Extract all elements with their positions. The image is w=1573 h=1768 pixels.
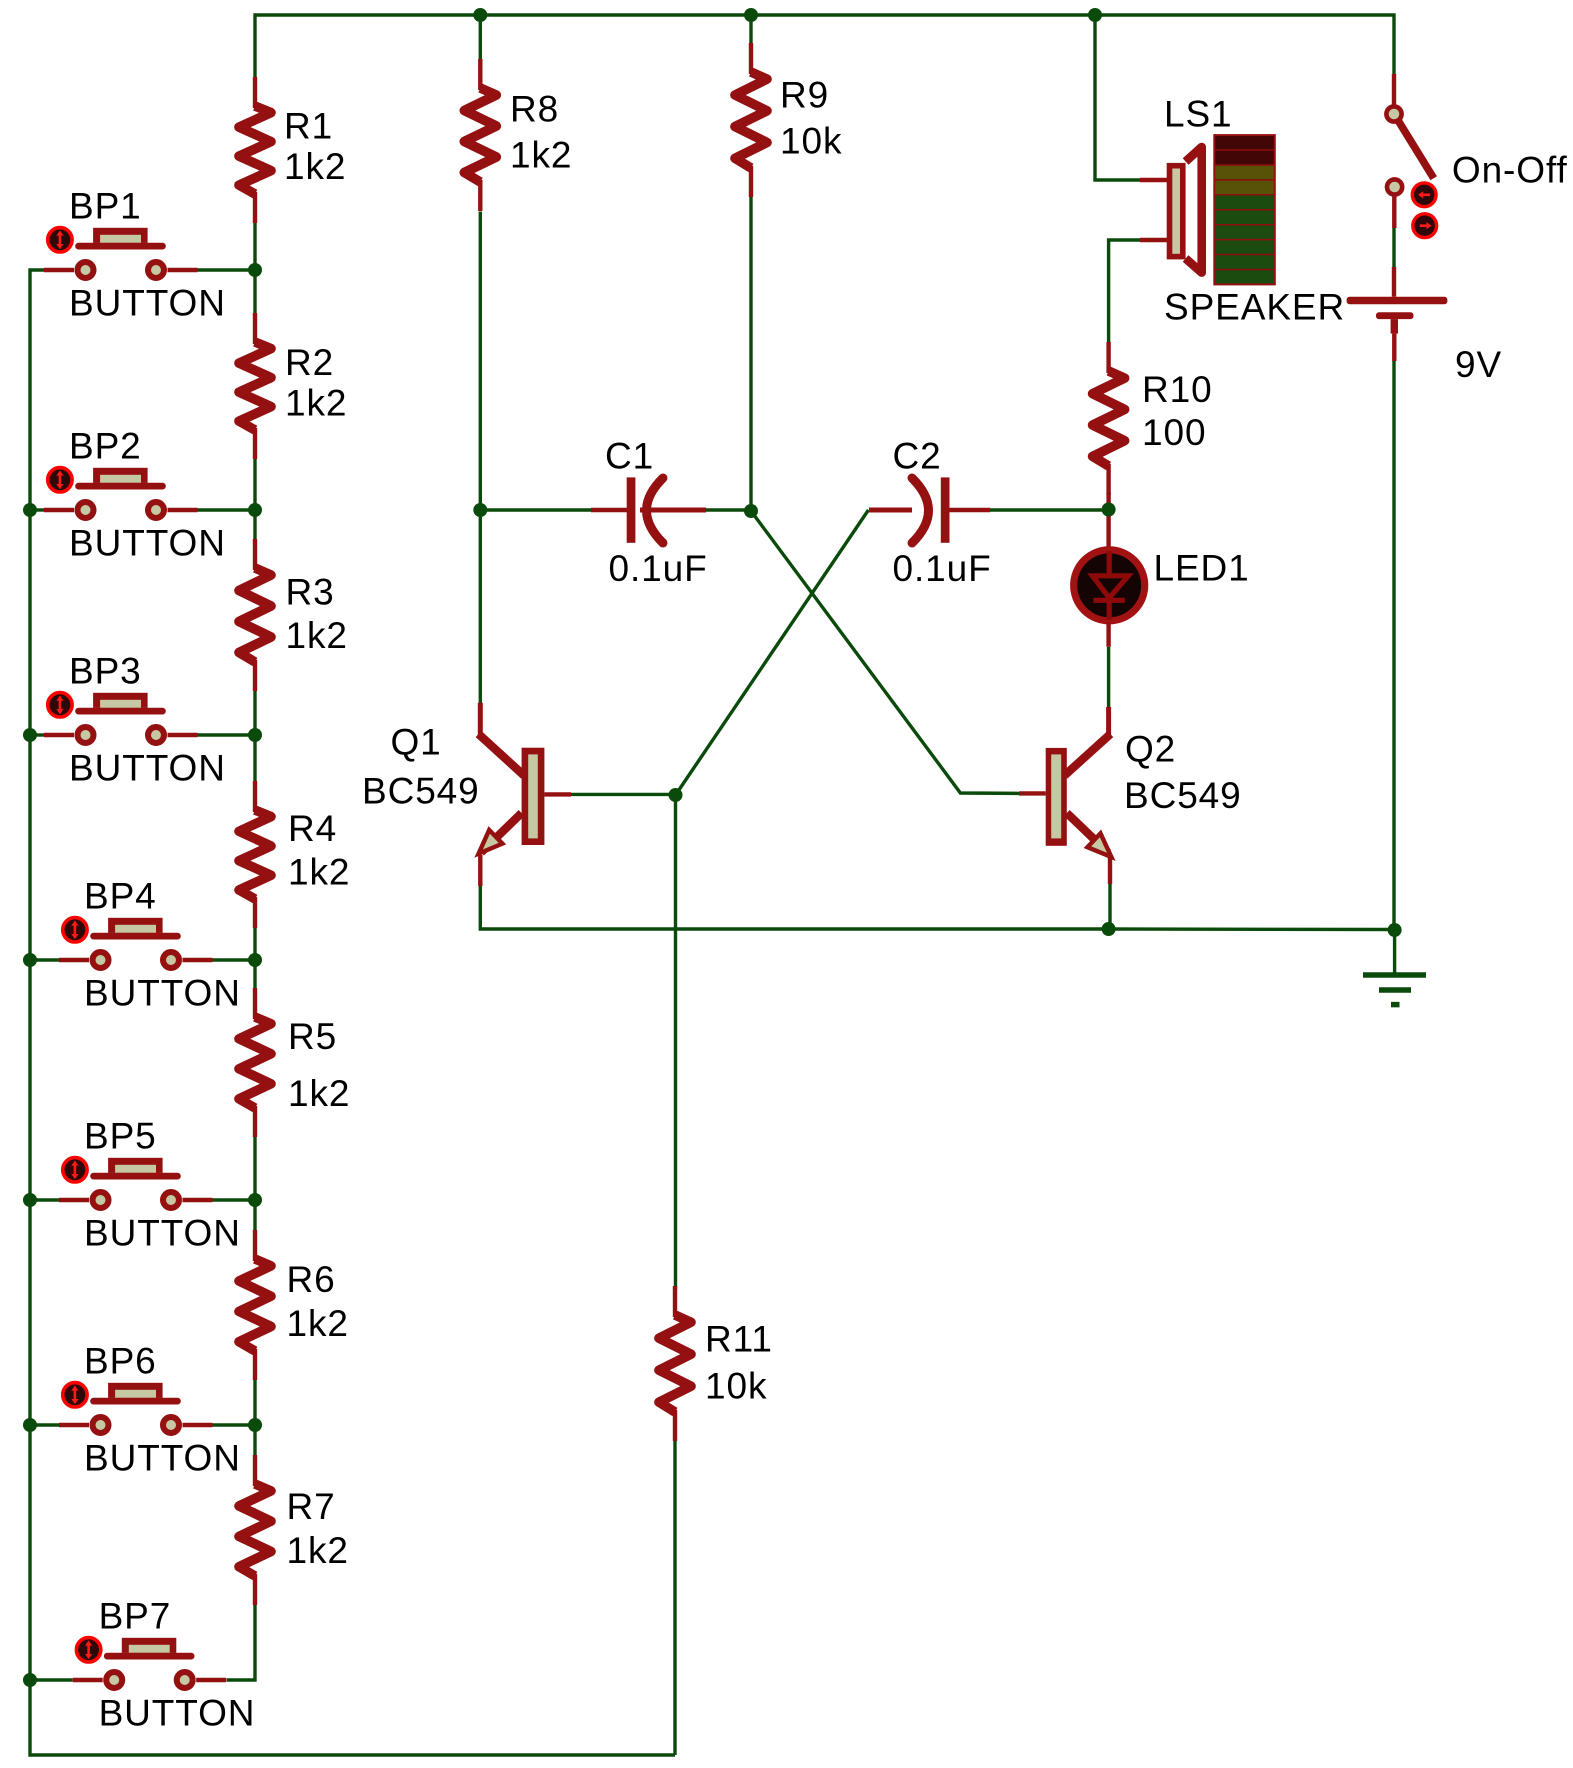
interactive actuator of BP1 [48,228,72,252]
wire left stub [30,958,59,961]
svg-text:SPEAKER: SPEAKER [1164,287,1345,328]
svg-text:R9: R9 [780,74,829,115]
interactive actuator of BP4 [63,918,87,942]
svg-text:BUTTON: BUTTON [84,1438,241,1479]
svg-text:R6: R6 [287,1259,336,1300]
wire left stub [30,1423,59,1426]
svg-text:BP4: BP4 [84,876,157,917]
resistor R4 [239,781,350,928]
push button BP6 [59,1341,241,1479]
resistor R1 [239,77,346,223]
svg-text:9V: 9V [1455,344,1502,385]
node junction at 255,510 [248,503,262,517]
node junction at 255,960 [248,953,262,967]
wire R11 bottom lead [673,1441,676,1755]
push button BP1 [44,186,226,324]
wire ground rail right [1109,927,1395,931]
transistor Q2 [1019,707,1242,884]
svg-text:BP2: BP2 [69,426,142,467]
wire Q1 emitter to ground rail [480,886,1108,929]
wire left stub [30,1198,59,1201]
wire battery to ground rail [1392,361,1395,930]
wire button to chain [213,1198,256,1201]
resistor R7 [239,1455,349,1605]
svg-text:BP6: BP6 [84,1341,157,1382]
node junction at 255,270 [248,263,262,277]
svg-text:R8: R8 [510,88,559,129]
svg-text:1k2: 1k2 [285,383,347,424]
wire resistor chain segment [253,690,256,735]
svg-text:R5: R5 [288,1016,337,1057]
wire Q2 emitter lead [1108,884,1111,929]
wire R9 bottom lead [749,196,752,511]
node junction at 30,735 [23,728,37,742]
wire resistor chain segment [253,735,256,783]
node junction at 255,1200 [248,1193,262,1207]
wire resistor chain segment [253,223,256,271]
ground [1363,975,1426,1005]
resistor R11 [659,1286,773,1441]
node junction at 1394.6,930 [1388,923,1402,937]
wire button to chain [213,958,256,961]
svg-text:LS1: LS1 [1164,94,1233,135]
node junction at 30,510 [23,503,37,517]
capacitor C2 [869,436,992,589]
wire button to chain [198,508,256,511]
node junction at 255,735 [248,728,262,742]
wire button to chain [198,733,256,736]
node junction at 480.3,510 [473,503,487,517]
interactive actuator of BP2 [48,468,72,492]
node junction at 480.3,15 [473,8,487,22]
node junction at 255,1425 [248,1418,262,1432]
LED LED1 [1074,513,1250,647]
svg-text:1k2: 1k2 [288,1073,350,1114]
svg-text:R11: R11 [705,1319,773,1360]
wire switch to battery [1392,228,1395,267]
wire cross link to C2 [676,510,869,795]
svg-text:BP7: BP7 [99,1596,172,1637]
svg-text:1k2: 1k2 [286,615,348,656]
svg-text:BUTTON: BUTTON [69,523,226,564]
svg-text:C1: C1 [605,436,654,477]
interactive actuator of BP3 [48,693,72,717]
push button BP7 [73,1596,256,1734]
battery 9V [1347,267,1502,385]
wire resistor chain segment [253,510,256,541]
node junction at 1095,15 [1088,8,1102,22]
wire left stub [30,733,44,736]
svg-text:R3: R3 [286,572,335,613]
svg-text:BC549: BC549 [362,771,480,812]
svg-text:BUTTON: BUTTON [84,1213,241,1254]
svg-text:0.1uF: 0.1uF [609,548,708,589]
svg-text:10k: 10k [705,1366,767,1407]
interactive actuator of BP7 [76,1638,100,1662]
interactive actuator of BP5 [63,1158,87,1182]
svg-text:C2: C2 [893,436,942,477]
resistor R8 [464,59,572,211]
wire resistor chain segment [253,1136,256,1200]
svg-text:1k2: 1k2 [287,1530,349,1571]
node junction at 1108.6,929 [1102,922,1116,936]
node junction at 751,15 [744,8,758,22]
svg-text:BUTTON: BUTTON [69,283,226,324]
svg-text:BP3: BP3 [69,651,142,692]
wire left bus rail [30,270,675,1755]
node junction at 751,511 [744,504,758,518]
wire ground stub [1393,930,1396,975]
wire R8 top lead [479,15,482,60]
speaker LS1 [1140,94,1345,328]
node junction at 30,1200 [23,1193,37,1207]
svg-text:LED1: LED1 [1154,547,1250,588]
wire Q1 base [571,793,676,796]
push button BP3 [44,651,226,789]
svg-text:100: 100 [1142,412,1206,453]
resistor R10 [1093,342,1213,495]
interactive toggle down of switch [1413,214,1437,238]
svg-text:1k2: 1k2 [510,134,572,175]
interactive actuator of BP6 [63,1383,87,1407]
wire resistor chain segment [253,1379,256,1425]
svg-text:10k: 10k [780,121,842,162]
resistor R2 [239,313,347,459]
svg-text:BUTTON: BUTTON [84,973,241,1014]
svg-text:R10: R10 [1142,369,1213,410]
node junction at 30,1680 [23,1673,37,1687]
svg-text:1k2: 1k2 [287,1303,349,1344]
wire R10 bottom pin stub [1106,492,1110,506]
capacitor C1 [591,436,708,589]
svg-text:BP1: BP1 [69,186,142,227]
svg-text:On-Off: On-Off [1452,150,1568,191]
wire BP7 to R7 corner [227,1602,255,1680]
svg-text:Q1: Q1 [391,722,442,763]
node junction at 30,960 [23,953,37,967]
svg-text:R4: R4 [288,808,337,849]
resistor R6 [239,1230,349,1380]
svg-text:R1: R1 [284,105,333,146]
wire speaker top lead [1095,15,1140,180]
node junction at 30,1425 [23,1418,37,1432]
svg-text:Q2: Q2 [1125,728,1176,769]
wire C1 left [480,508,591,511]
svg-text:BC549: BC549 [1124,775,1242,816]
resistor R5 [239,988,350,1137]
wire left stub [30,1678,73,1681]
svg-text:BP5: BP5 [84,1116,157,1157]
wire left stub [30,508,44,511]
wire R9 top lead [749,15,752,49]
interactive toggle up of switch [1412,183,1436,207]
svg-text:0.1uF: 0.1uF [893,548,992,589]
wire Q1 base node to R11 [674,795,677,1289]
node junction at 675.5,795 [669,788,683,802]
wire C2 right [990,508,1109,511]
resistor R9 [735,43,842,197]
node junction at 1108.6,509.5 [1102,503,1116,517]
wire button to chain [213,1423,256,1426]
wire resistor chain segment [253,270,256,315]
wire cross link to Q2 base [751,511,1019,793]
svg-text:BUTTON: BUTTON [99,1693,256,1734]
wire LED to Q2 collector [1107,647,1110,707]
wire C1 right [706,508,751,511]
resistor R3 [239,539,348,691]
push button BP4 [59,876,241,1014]
wire resistor chain segment [253,1425,256,1457]
wire button to chain [198,268,256,271]
wire resistor chain segment [253,458,256,510]
wire resistor chain segment [253,1200,256,1232]
push button BP5 [59,1116,241,1254]
transistor Q1 [362,703,571,886]
svg-text:R2: R2 [285,342,334,383]
wire resistor chain segment [253,960,256,990]
push button BP2 [44,426,226,564]
svg-text:BUTTON: BUTTON [69,748,226,789]
wire top supply rail [255,15,1394,78]
wire resistor chain segment [253,927,256,960]
svg-text:1k2: 1k2 [288,852,350,893]
switch On-Off [1386,74,1567,238]
wire speaker bottom lead [1109,240,1140,349]
svg-text:R7: R7 [287,1486,336,1527]
wire R8 to Q1 collector [479,212,482,704]
svg-text:1k2: 1k2 [284,146,346,187]
